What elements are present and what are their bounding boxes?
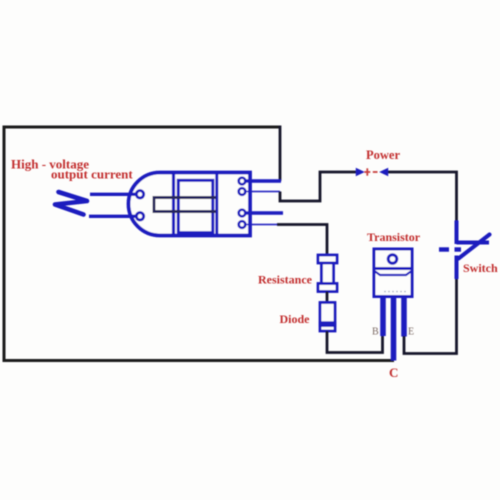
- svg-text:output current: output current: [51, 167, 133, 182]
- switch SW1 lower contact wire: [455, 256, 459, 280]
- coil pin 4: [239, 221, 246, 228]
- transistor Q1 tab: [374, 249, 412, 269]
- coil pin 3 stub wire: [245, 211, 283, 215]
- coil pin 2 lead wire: [245, 191, 280, 193]
- wire spark gap to coil terminal 2: [89, 215, 137, 218]
- svg-text:E: E: [408, 327, 414, 338]
- coil divider line 2: [215, 171, 218, 237]
- coil core notch left edge: [153, 196, 156, 213]
- enclosure box left edge (wire): [3, 126, 6, 363]
- coil HV terminal 1: [136, 191, 143, 198]
- transistor Q1 body: [374, 269, 412, 297]
- svg-text:Diode: Diode: [280, 312, 311, 326]
- svg-text:Transistor: Transistor: [367, 230, 421, 244]
- svg-text:Power: Power: [366, 148, 400, 162]
- coil divider line 1: [172, 171, 175, 237]
- switch SW1 upper contact wire: [455, 221, 459, 245]
- power arrow right: [356, 168, 365, 176]
- power minus sign: [373, 171, 378, 173]
- coil pin 2: [239, 188, 246, 195]
- coil winding horizontal line lower: [154, 210, 216, 213]
- diode D1 body: [320, 303, 335, 332]
- transistor Q1 base leg B: [380, 297, 386, 337]
- coil pin 1 stub wire: [245, 179, 281, 183]
- spark gap zigzag: [55, 192, 87, 215]
- coil winding horizontal line upper: [154, 196, 216, 199]
- coil HV terminal 2: [136, 213, 143, 220]
- wire diode to transistor base B: [327, 331, 383, 353]
- resistor R1 bottom cap: [318, 284, 337, 292]
- wire coil pin 2 to power plus: [280, 172, 357, 201]
- coil pin 4 lead wire: [245, 224, 277, 226]
- transistor Q1 mounting hole: [388, 255, 397, 264]
- power plus sign: [364, 168, 370, 175]
- switch SW1 actuator dash 2: [455, 247, 462, 251]
- transistor Q1 body chamfer line: [375, 271, 412, 275]
- label: High - voltage output current: [11, 156, 133, 181]
- power arrow left: [379, 168, 388, 176]
- svg-text:B: B: [372, 327, 379, 338]
- svg-text:C: C: [389, 365, 398, 380]
- enclosure box top edge (wire): [3, 126, 281, 129]
- wire power minus to switch top: [388, 172, 457, 221]
- transistor Q1 marking dots: [384, 291, 406, 293]
- transistor Q1 collector leg C: [391, 297, 397, 361]
- ignition coil T1 body outline: [129, 173, 251, 236]
- coil pin 3: [239, 210, 246, 217]
- switch SW1 upper contact horizontal: [457, 241, 490, 245]
- switch SW1 actuator dash 1: [439, 247, 449, 251]
- wire resistor to diode: [326, 292, 329, 304]
- switch SW1 blade: [459, 235, 490, 259]
- coil pin 1: [239, 178, 246, 185]
- enclosure box right edge wire to coil HV terminal: [279, 126, 282, 182]
- resistor R1 top cap: [318, 255, 337, 263]
- wire spark gap to coil terminal 1: [90, 193, 137, 196]
- diode D1 cathode band: [319, 321, 336, 327]
- enclosure box bottom edge / collector C wire: [3, 359, 395, 362]
- resistor R1 body: [322, 263, 334, 284]
- coil winding inner rectangle: [178, 180, 213, 232]
- svg-text:Resistance: Resistance: [258, 273, 313, 287]
- wire coil pin 4 to resistor: [277, 225, 327, 257]
- svg-text:Switch: Switch: [463, 261, 498, 275]
- wire emitter E to switch bottom: [404, 279, 457, 354]
- transistor Q1 emitter leg E: [401, 297, 407, 337]
